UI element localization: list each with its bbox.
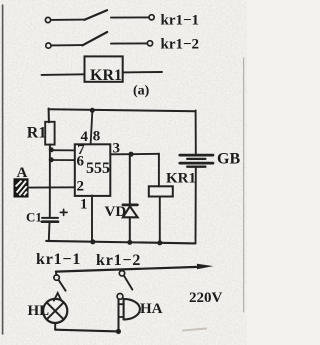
battery GB plates [180, 155, 213, 167]
wire top-left corner to R1 [48, 109, 50, 123]
lamp HL [43, 299, 67, 323]
node pin1 on bottom rail [90, 239, 95, 244]
resistor R1 [45, 122, 54, 145]
wire pin 3 stub [110, 153, 131, 155]
switch kr1-1 (power) blade [59, 280, 66, 290]
wire HA bottom stub [119, 316, 124, 318]
svg-text:C1: C1 [26, 210, 42, 225]
node relay on bottom rail [157, 240, 162, 245]
node pin6 junction [49, 157, 54, 162]
op 555 timer U1 box [75, 144, 111, 196]
svg-text:kr1−1: kr1−1 [161, 13, 200, 29]
bell HA body [123, 299, 125, 320]
svg-text:8: 8 [93, 129, 101, 145]
wire top rail [49, 109, 196, 111]
switch kr1-2 (power) blade [124, 276, 132, 289]
wire lamp bottom [54, 323, 56, 330]
svg-text:VD: VD [105, 204, 127, 220]
svg-text:HL: HL [28, 303, 50, 319]
wire [111, 16, 149, 18]
capacitor C1 plus sign [60, 211, 67, 213]
capacitor C1 bottom plate [42, 220, 58, 223]
switch kr1-2 blade [83, 32, 108, 45]
wire pin3 junction to relay corner [131, 153, 159, 155]
wire to relay box (a) left [42, 73, 85, 76]
svg-text:KR1: KR1 [166, 171, 196, 187]
node pins 4,8 on top rail [90, 108, 95, 113]
photoresistor A [14, 179, 28, 197]
wire battery bottom lead [195, 168, 197, 243]
diode VD bottom lead [129, 217, 131, 243]
svg-text:kr1−2: kr1−2 [161, 37, 200, 53]
wire pin 7 stub [50, 149, 75, 151]
wire left rail below R1 [49, 144, 51, 218]
relay KR1 coil [149, 186, 173, 196]
svg-text:KR1: KR1 [90, 67, 122, 84]
arrowhead 220V line [197, 264, 213, 270]
wire from sensor A to pin 2 [29, 186, 74, 188]
wire [51, 44, 83, 46]
wire down to relay coil [158, 154, 160, 187]
wire battery top lead [195, 111, 197, 154]
wire HA left vertical [118, 299, 120, 331]
wire HA top stub [119, 303, 124, 305]
switch kr1-1 right terminal [149, 15, 154, 20]
node VD on bottom rail [127, 240, 132, 245]
svg-text:2: 2 [77, 179, 85, 195]
switch kr1-2 right terminal [147, 41, 152, 46]
wire [111, 42, 147, 44]
wire pins 4,8 to top rail [91, 110, 93, 144]
switch kr1-2 (power) moving contact [119, 271, 124, 276]
svg-text:R1: R1 [27, 124, 47, 141]
wire pin 6 stub [50, 159, 75, 161]
svg-text:555: 555 [86, 160, 110, 177]
svg-text:GB: GB [217, 151, 240, 168]
diode VD triangle [123, 206, 138, 217]
node HA bottom junction [116, 329, 121, 334]
wire C1 to bottom rail [48, 223, 51, 241]
switch kr1-1 blade [85, 10, 108, 20]
svg-text:3: 3 [113, 141, 121, 157]
wire bottom rail [46, 241, 195, 244]
svg-text:220V: 220V [189, 290, 223, 306]
node pin7 junction [49, 147, 54, 152]
svg-text:6: 6 [77, 154, 85, 170]
wire relay to bottom rail [159, 197, 161, 243]
svg-text:HA: HA [140, 301, 163, 317]
diode VD cathode bar [123, 204, 137, 207]
wire pin 1 to bottom rail [91, 196, 93, 242]
node pin 3 junction [128, 152, 133, 157]
svg-text:kr1−1: kr1−1 [36, 251, 81, 268]
switch kr1-2 (power) fixed contact [117, 294, 123, 300]
svg-text:A: A [17, 165, 28, 181]
relay KR1 coil box (a) [85, 56, 123, 81]
svg-text:(a): (a) [133, 84, 150, 99]
switch kr1-1 (power) moving contact [54, 275, 59, 280]
wire 220V feed line [56, 267, 198, 272]
switch kr1-1 (power) top corner [55, 271, 57, 275]
capacitor C1 top plate [42, 217, 58, 219]
wire bottom return [55, 330, 118, 332]
wire [51, 19, 85, 21]
svg-text:kr1−2: kr1−2 [96, 252, 141, 269]
switch kr1-1 left terminal [45, 17, 50, 22]
switch kr1-2 left terminal [46, 43, 51, 48]
switch kr1-1 (power) fixed contact arrow [54, 293, 61, 301]
wire from relay box (a) right [123, 71, 162, 73]
diode VD top lead [129, 156, 131, 205]
svg-text:1: 1 [80, 197, 88, 213]
